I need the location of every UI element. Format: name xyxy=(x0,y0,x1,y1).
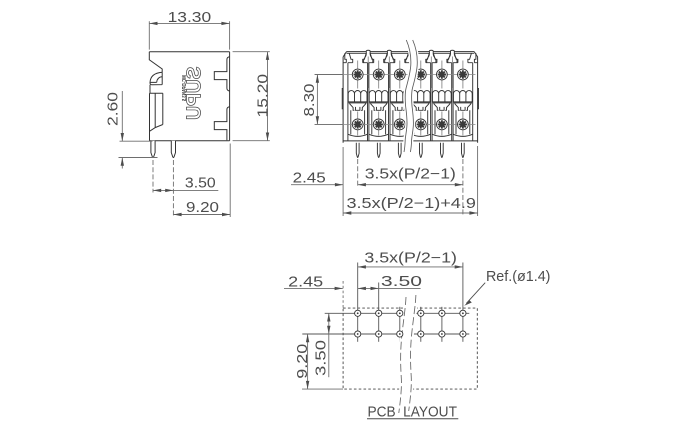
column 4 lower chamber walls xyxy=(414,110,428,134)
column centerlines xyxy=(358,57,463,136)
column 3 clamp spring cloud xyxy=(390,91,409,102)
column 3 lower chamber walls xyxy=(393,110,407,134)
pcb pad lower row col 3 xyxy=(397,331,403,337)
break line left xyxy=(404,40,411,152)
top edge segments xyxy=(347,51,475,53)
pad column centerlines xyxy=(357,263,359,342)
front body edge extensions xyxy=(343,146,478,216)
terminal screw upper row col 2 xyxy=(373,69,384,80)
divider chimney 3 xyxy=(406,50,415,62)
column 6 clamp spring cloud xyxy=(453,91,472,102)
pcb dim 2.45 line xyxy=(284,287,343,289)
dim 15.20 line xyxy=(267,52,269,141)
svg-text:13.30: 13.30 xyxy=(168,10,212,26)
pcb pad lower row col 2 xyxy=(376,331,382,337)
svg-text:3.5x(P/2−1): 3.5x(P/2−1) xyxy=(365,166,456,182)
side view latch flange xyxy=(150,85,163,141)
column 2 chamber walls xyxy=(369,63,389,141)
divider chimney 5 xyxy=(448,50,457,62)
column 4 clamp spring cloud xyxy=(411,91,430,102)
front view body xyxy=(343,52,478,143)
column 4 bottom wave xyxy=(411,134,431,136)
column 1 clamp spring cloud xyxy=(348,90,367,101)
svg-text:3.50: 3.50 xyxy=(185,176,216,192)
dim 9.20 side extension xyxy=(229,144,231,218)
column 5 clamp spring cloud xyxy=(432,91,451,102)
pcb pad upper row col 2 xyxy=(376,310,382,316)
column 2 lower chamber walls xyxy=(372,110,386,134)
svg-text:9.20: 9.20 xyxy=(295,344,311,379)
dim 8.30 extensions xyxy=(315,75,343,125)
pcb break line right xyxy=(409,295,416,411)
column 5 funnel cavity xyxy=(432,53,452,62)
divider chimney 4 xyxy=(427,50,436,62)
column 4 chamber walls xyxy=(411,63,431,141)
divider chimney 2 xyxy=(385,50,394,62)
side view left profile xyxy=(149,52,162,73)
side view T-slot lower xyxy=(214,107,229,141)
column 2 bottom wave xyxy=(369,134,389,136)
ref leader line xyxy=(466,283,485,304)
terminal screw upper row col 1 xyxy=(352,69,363,80)
break line right xyxy=(410,40,417,152)
pcb vert dim 3.50 line xyxy=(328,313,330,377)
pcb pad lower row col 1 xyxy=(355,331,361,337)
pcb dim 3.50 line xyxy=(358,287,421,289)
svg-text:2.60: 2.60 xyxy=(106,92,122,126)
column 3 chamber walls xyxy=(390,63,410,141)
svg-text:2.45: 2.45 xyxy=(293,170,326,186)
break band white-out xyxy=(407,40,414,152)
dim 15.20 extension lines xyxy=(233,52,270,141)
svg-text:2.45: 2.45 xyxy=(288,275,323,291)
svg-text:3.50: 3.50 xyxy=(381,274,422,290)
column 6 bottom wave xyxy=(453,134,473,136)
pcb bottom extension xyxy=(302,388,343,390)
svg-text:15.20: 15.20 xyxy=(255,74,271,118)
right edge step at clamp band xyxy=(477,89,480,109)
front pin 5 xyxy=(441,143,444,158)
pcb pad upper row col 6 xyxy=(460,310,466,316)
terminal screw lower row col 3 xyxy=(394,119,405,130)
pcb pad lower row col 6 xyxy=(460,331,466,337)
column 4 lower funnel xyxy=(412,103,430,110)
column 6 lower chamber walls xyxy=(456,110,470,134)
row centerlines through terminals xyxy=(315,75,476,125)
column 2 clamp spring cloud xyxy=(369,90,388,101)
side view pin 2 xyxy=(171,141,175,158)
terminal screw upper row col 5 xyxy=(437,69,448,80)
terminal screw lower row col 6 xyxy=(458,119,469,130)
pcb pad lower row col 4 xyxy=(418,331,424,337)
PCB LAYOUT underline xyxy=(367,418,458,420)
svg-text:8.30: 8.30 xyxy=(302,84,318,117)
column 2 funnel cavity xyxy=(369,53,389,62)
pcb pad upper row col 5 xyxy=(439,310,445,316)
left edge nub xyxy=(343,53,346,62)
ref leader arrowhead xyxy=(464,300,472,306)
column 6 funnel cavity xyxy=(453,53,473,62)
pcb break line left xyxy=(399,297,406,413)
pcb pad lower row col 5 xyxy=(439,331,445,337)
svg-text:Ref.(ø1.4): Ref.(ø1.4) xyxy=(486,269,551,285)
dim 2.60 extension lines xyxy=(119,141,158,157)
dim +4.9 line xyxy=(343,212,478,214)
column 6 chamber walls xyxy=(453,63,473,141)
left edge step at clamp band xyxy=(341,89,344,109)
dim 9.20 side line xyxy=(173,214,230,216)
side view T-slot upper xyxy=(214,57,229,91)
column 3 funnel cavity xyxy=(390,53,410,62)
pcb pad upper row col 1 xyxy=(355,310,361,316)
front pin 3 xyxy=(398,143,401,158)
pcb dim 3.5x(P/2-1) line xyxy=(358,266,463,268)
pcb dashed outline xyxy=(343,308,477,389)
front pin 4 xyxy=(420,143,423,158)
column 1 lower chamber walls xyxy=(351,110,365,134)
terminal screw lower row col 1 xyxy=(352,119,363,130)
svg-text:MC-DPAN3.5: MC-DPAN3.5 xyxy=(182,75,188,101)
column 2 lower funnel xyxy=(370,103,388,110)
column 3 bottom wave xyxy=(390,134,410,136)
svg-text:3.5x(P/2−1): 3.5x(P/2−1) xyxy=(364,250,457,266)
svg-text:PCB LAYOUT: PCB LAYOUT xyxy=(367,404,457,421)
front pin 1 xyxy=(356,143,359,158)
divider chimney 1 xyxy=(364,50,373,62)
front pin 6 xyxy=(462,143,465,158)
column 4 funnel cavity xyxy=(411,53,431,62)
pcb pad upper row col 3 xyxy=(397,310,403,316)
terminal screw upper row col 3 xyxy=(394,69,405,80)
dim 13.30 extension lines xyxy=(149,21,229,49)
column 6 lower funnel xyxy=(454,103,472,110)
terminal screw upper row col 4 xyxy=(415,69,426,80)
front pin 2 xyxy=(377,143,380,158)
column 1 chamber walls xyxy=(348,63,368,141)
pcb vert dim 9.20 line xyxy=(307,334,309,389)
column 1 funnel cavity xyxy=(348,53,368,62)
bottom rim lines xyxy=(343,140,478,142)
dim 3.5x(P/2-1) front line xyxy=(358,184,463,186)
dim 3.50 side centerlines xyxy=(153,160,173,217)
column 5 lower chamber walls xyxy=(435,110,449,134)
dim 2.60 line xyxy=(121,91,123,169)
svg-text:9.20: 9.20 xyxy=(186,200,219,216)
terminal screw lower row col 4 xyxy=(415,119,426,130)
svg-text:3.50: 3.50 xyxy=(313,340,329,376)
right edge nub xyxy=(474,53,477,62)
terminal screw lower row col 2 xyxy=(373,119,384,130)
dim 8.30 line xyxy=(316,75,318,125)
pcb pad upper row col 4 xyxy=(418,310,424,316)
top rim inner line xyxy=(347,52,475,54)
front pin centerlines xyxy=(358,159,463,216)
column 3 lower funnel xyxy=(391,103,409,110)
column 5 bottom wave xyxy=(432,134,452,136)
pcb rect left extension xyxy=(342,281,344,308)
dim 3.50 side line xyxy=(153,189,218,191)
column 1 bottom wave xyxy=(348,134,368,136)
column 5 lower funnel xyxy=(433,103,451,110)
side view pin 1 xyxy=(151,141,155,158)
dim 2.45 front line xyxy=(291,184,343,186)
dim 13.30 line xyxy=(149,22,229,24)
column 1 lower funnel xyxy=(349,103,367,110)
side view: connector body outline xyxy=(149,52,229,141)
side view wire-clamp hook xyxy=(150,72,162,85)
column 5 chamber walls xyxy=(432,63,452,141)
pcb break band white-out xyxy=(404,296,411,412)
terminal screw lower row col 5 xyxy=(437,119,448,130)
terminal screw upper row col 6 xyxy=(458,69,469,80)
svg-text:3.5x(P/2−1)+4.9: 3.5x(P/2−1)+4.9 xyxy=(347,196,476,212)
pad row centerlines xyxy=(302,313,469,334)
